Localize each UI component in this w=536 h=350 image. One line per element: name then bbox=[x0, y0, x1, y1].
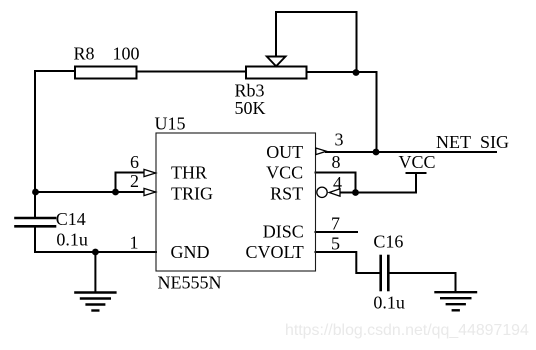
svg-text:6: 6 bbox=[130, 152, 139, 172]
svg-text:OUT: OUT bbox=[266, 142, 303, 162]
svg-text:RST: RST bbox=[270, 183, 303, 203]
svg-text:GND: GND bbox=[171, 242, 210, 262]
svg-text:VCC: VCC bbox=[266, 162, 303, 182]
svg-text:R8: R8 bbox=[74, 44, 95, 64]
svg-text:CVOLT: CVOLT bbox=[245, 242, 303, 262]
svg-text:C16: C16 bbox=[373, 232, 403, 252]
svg-text:U15: U15 bbox=[155, 114, 186, 134]
svg-text:0.1u: 0.1u bbox=[56, 229, 88, 249]
svg-text:7: 7 bbox=[331, 214, 340, 234]
svg-text:4: 4 bbox=[333, 173, 342, 193]
svg-text:3: 3 bbox=[335, 130, 344, 150]
svg-text:DISC: DISC bbox=[263, 222, 304, 242]
svg-text:100: 100 bbox=[113, 44, 140, 64]
svg-text:8: 8 bbox=[332, 152, 341, 172]
svg-text:THR: THR bbox=[171, 162, 207, 182]
svg-text:0.1u: 0.1u bbox=[373, 293, 405, 313]
svg-text:50K: 50K bbox=[235, 98, 266, 118]
svg-text:VCC: VCC bbox=[399, 152, 436, 172]
svg-text:NET SIG: NET SIG bbox=[436, 132, 509, 152]
svg-text:2: 2 bbox=[130, 171, 139, 191]
svg-text:5: 5 bbox=[331, 234, 340, 254]
svg-text:https://blog.csdn.net/qq_44897: https://blog.csdn.net/qq_44897194 bbox=[285, 322, 529, 339]
svg-text:1: 1 bbox=[130, 233, 139, 253]
svg-text:C14: C14 bbox=[56, 209, 86, 229]
svg-text:TRIG: TRIG bbox=[171, 183, 213, 203]
svg-text:NE555N: NE555N bbox=[158, 273, 222, 293]
